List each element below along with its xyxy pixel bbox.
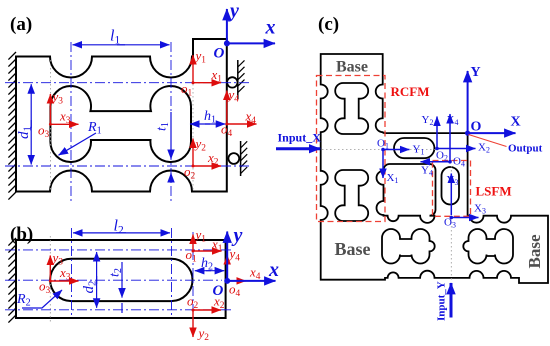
svg-text:Base: Base <box>336 59 368 76</box>
Y3 leaf-spring slot (c) <box>442 167 460 205</box>
svg-text:y: y <box>228 0 239 22</box>
frame O4 (c) <box>449 114 451 162</box>
svg-text:O: O <box>214 46 225 62</box>
svg-text:Y: Y <box>471 65 481 80</box>
fixed wall hatching (b) <box>8 238 16 323</box>
Input_X arrow (c) <box>276 147 320 150</box>
dimension l2 (b) <box>73 232 126 234</box>
svg-text:X: X <box>511 115 521 130</box>
svg-text:y: y <box>232 225 243 247</box>
RCFM red dashed box (c) <box>317 76 386 222</box>
global frame O X Y (c) <box>468 132 516 134</box>
svg-text:LSFM: LSFM <box>476 184 512 199</box>
frame o2 (a) <box>193 165 221 167</box>
label R1 with leader (a) <box>59 133 97 155</box>
flexure part outline (a) <box>16 39 227 192</box>
stadium slot (b) <box>50 259 192 301</box>
svg-text:Input_Y: Input_Y <box>436 281 448 321</box>
dimension t2 (b) <box>121 262 123 298</box>
Output label with red leader (c) <box>469 135 507 147</box>
big window cutout (c) <box>377 164 436 223</box>
svg-text:Output: Output <box>508 143 543 155</box>
frame o4 (a) <box>227 123 257 125</box>
RCFM row-2 dog-bone cutout (c) <box>335 170 368 221</box>
frame o3 (a) <box>50 123 78 125</box>
bottom-right module bone cutout (c) <box>463 229 513 264</box>
frame O1 (c) <box>383 149 410 151</box>
construction dotted lines (a) <box>49 60 51 190</box>
svg-text:x: x <box>265 17 276 39</box>
frame O2 (c) <box>436 117 438 149</box>
leaf flexure rectangle (b) <box>16 240 226 318</box>
dimension l1 (a) <box>73 44 126 46</box>
frame o1 (a) <box>193 55 221 83</box>
RCFM row-1 dog-bone cutout (c) <box>335 83 368 134</box>
inner dumbbell cutout (a) <box>50 86 191 162</box>
bottom-left module bone cutout (c) <box>382 229 435 264</box>
roller support 1 (a) <box>227 77 237 87</box>
svg-text:Base: Base <box>335 239 371 259</box>
centre dash-dot lines (b) <box>5 249 232 251</box>
svg-text:O: O <box>471 120 482 135</box>
Input_Y arrow (c) <box>450 283 453 318</box>
dimension h1 (a) <box>190 123 210 125</box>
mechanism outer outline (c) <box>321 54 548 283</box>
frame O3 (c) <box>451 217 478 219</box>
svg-text:(b): (b) <box>10 224 33 245</box>
construction dotted line (b) <box>49 236 51 322</box>
svg-text:x: x <box>268 259 279 281</box>
svg-text:O: O <box>213 283 224 299</box>
construction dotted lines (c) <box>322 149 436 151</box>
global frame O x y (b) <box>227 280 275 282</box>
label R2 with leader (b) <box>22 291 61 308</box>
fixed wall hatching (a) left <box>8 52 16 200</box>
centre dash-dot lines (a) <box>5 82 250 84</box>
svg-text:(a): (a) <box>10 14 32 35</box>
roller support 2 (a) <box>228 153 239 164</box>
Y1 leaf-spring slot (c) <box>394 138 434 158</box>
dimension t1 (a) <box>170 112 172 159</box>
dimension d1 (a) <box>30 84 32 128</box>
frame o1 (b) <box>193 250 222 252</box>
frame o4 (b) <box>227 280 246 282</box>
frame o3 (b) <box>50 280 78 282</box>
global frame O x y (a) <box>227 42 275 44</box>
dimension h2 (b) <box>195 270 211 272</box>
frame o2 (b) <box>193 309 221 311</box>
LSFM red dashed box (c) <box>433 161 471 217</box>
dimension d2 (b) <box>96 252 98 284</box>
svg-text:Base: Base <box>525 234 544 268</box>
svg-text:RCFM: RCFM <box>391 84 430 99</box>
svg-text:Input_X: Input_X <box>278 131 322 145</box>
svg-text:(c): (c) <box>318 14 339 35</box>
